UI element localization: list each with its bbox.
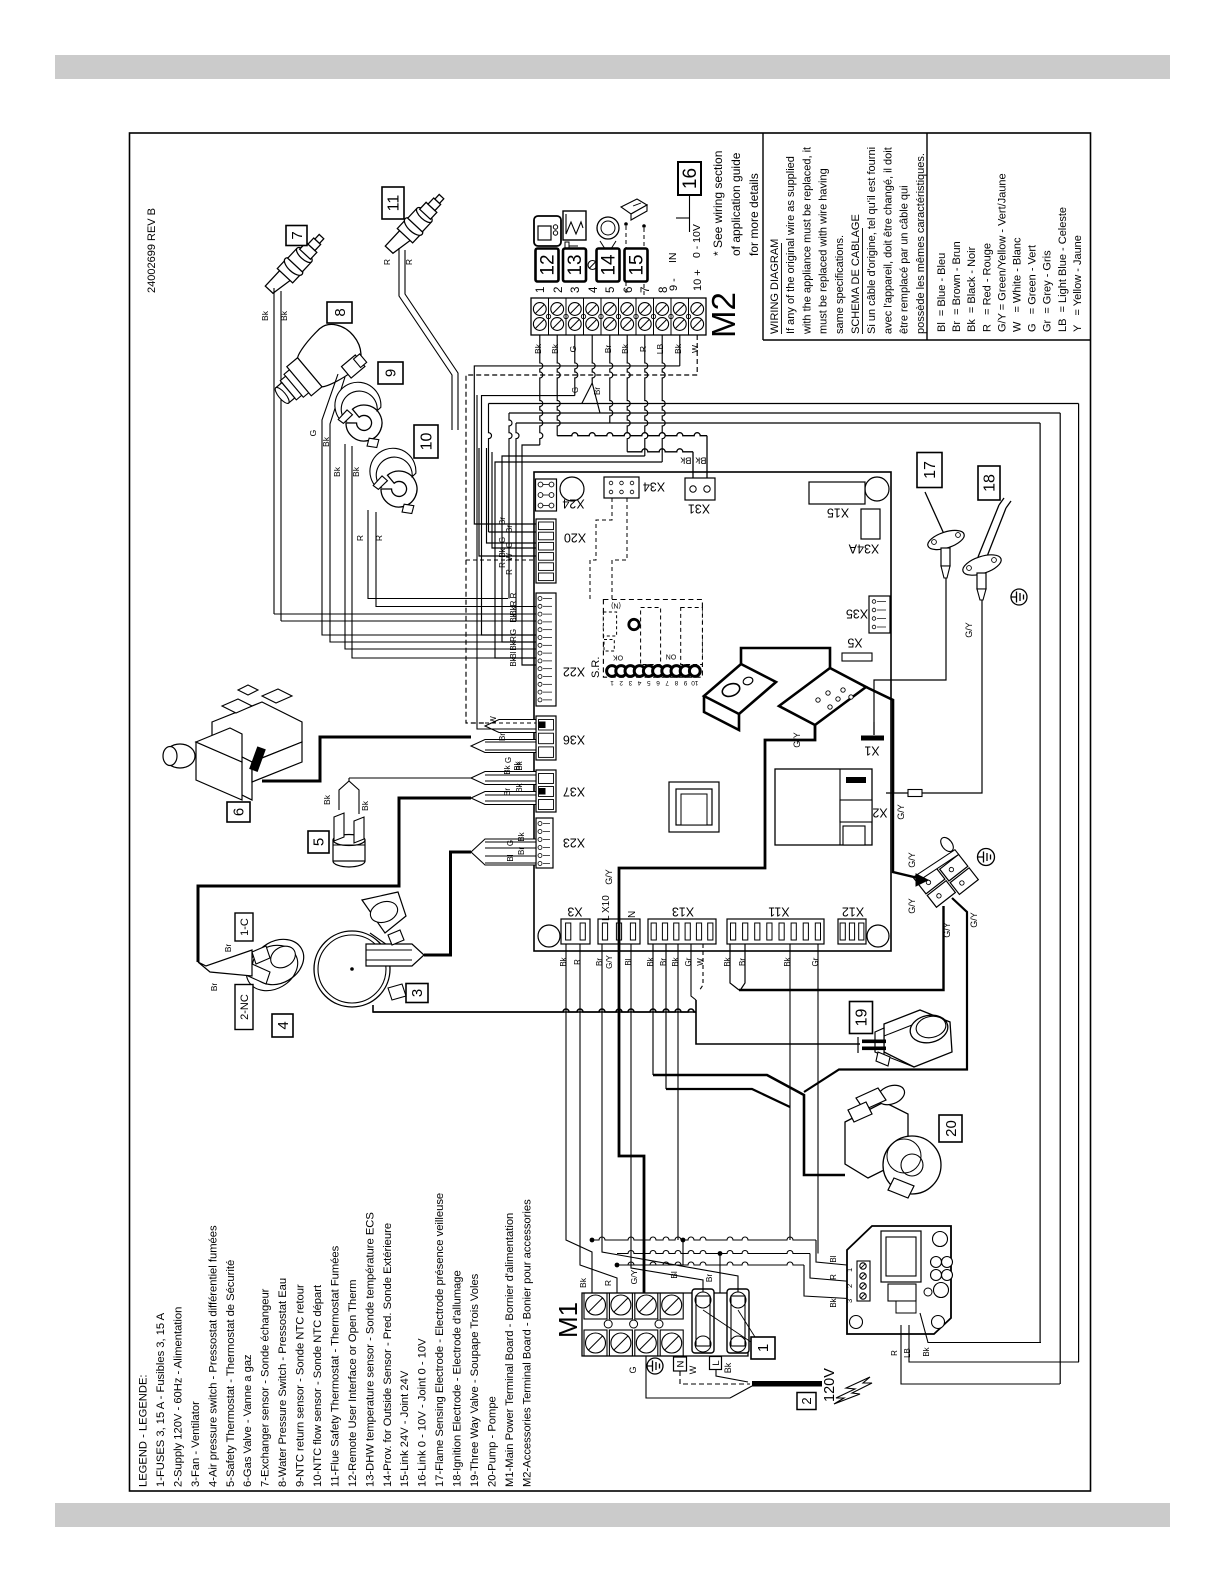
bottom gray footer bar: [55, 1503, 1170, 1527]
box 9: [378, 362, 403, 384]
svg-text:R: R: [355, 535, 365, 541]
svg-text:2-NC: 2-NC: [239, 994, 251, 1020]
svg-text:M2-Accessories Terminal Board: M2-Accessories Terminal Board - Bonier p…: [521, 1199, 533, 1487]
icon link switch (15): [621, 199, 647, 296]
svg-text:5: 5: [311, 838, 328, 846]
svg-text:G/Y: G/Y: [604, 869, 614, 885]
thick feed to three way valve 19: [696, 906, 944, 1044]
thick cable fan to X23: [424, 852, 471, 955]
svg-text:X11: X11: [768, 905, 789, 919]
svg-text:with the appliance must be rep: with the appliance must be replaced, it: [801, 147, 813, 335]
svg-text:Br: Br: [704, 1274, 714, 1283]
icon remote user interface (12): [534, 216, 561, 246]
label X34: [643, 480, 665, 494]
svg-text:WIRING DIAGRAM: WIRING DIAGRAM: [769, 239, 781, 334]
svg-text:11-Flue Safety Thermostat - Th: 11-Flue Safety Thermostat - Thermostat F…: [329, 1245, 341, 1487]
svg-text:10: 10: [691, 679, 699, 686]
svg-text:Bl: Bl: [506, 854, 515, 861]
G/Y earth path relay to X10 to M1: [604, 725, 815, 1293]
earth symbol at M1: [647, 1358, 663, 1374]
svg-text:1: 1: [845, 1268, 854, 1272]
svg-text:Bl = Blue - Bleu: Bl = Blue - Bleu: [936, 253, 948, 332]
leader fuse to box 1: [703, 1310, 755, 1342]
box 10: [414, 425, 438, 458]
label M2: [705, 292, 742, 338]
wire labels at interface board input: [829, 1255, 838, 1307]
wire M2-5 Br joins bundle: [610, 335, 613, 423]
svg-text:Bk: Bk: [260, 310, 270, 321]
svg-text:X12: X12: [842, 905, 864, 919]
svg-text:R: R: [374, 535, 384, 541]
svg-text:G: G: [568, 346, 578, 353]
svg-text:Br: Br: [738, 958, 747, 966]
interface board connector 1 2 3: [845, 1261, 870, 1303]
wire M2-3 G to X22: [575, 335, 578, 396]
sensor 8 water pressure switch: [262, 315, 373, 421]
wires into fuses: [602, 1240, 738, 1292]
box 16 link 0-10V: [678, 162, 701, 195]
svg-text:Br: Br: [595, 958, 604, 966]
svg-text:8: 8: [332, 308, 349, 316]
svg-text:16-Link 0 - 10V - Joint 0 - 10: 16-Link 0 - 10V - Joint 0 - 10V: [417, 1338, 429, 1487]
svg-text:1: 1: [535, 287, 547, 293]
box 19: [850, 1002, 873, 1034]
svg-text:Bk: Bk: [723, 956, 732, 966]
svg-text:X1: X1: [864, 744, 879, 758]
wire X11 Gr down right: [817, 944, 819, 1254]
wire X13 Bk to pump feed: [652, 944, 654, 1075]
svg-text:Br = Brown - Brun: Br = Brown - Brun: [951, 241, 963, 332]
ignition transformer block: [775, 769, 872, 845]
wires from sensor 9: [332, 444, 536, 658]
svg-text:of application guide: of application guide: [729, 152, 743, 256]
svg-text:R: R: [382, 259, 392, 265]
svg-text:12: 12: [538, 254, 559, 275]
connector X31: [685, 478, 715, 500]
PCB mounting hole top-right: [865, 477, 889, 501]
main control board PCB outline: [534, 472, 891, 951]
svg-text:X15: X15: [827, 506, 849, 520]
label X24: [562, 497, 584, 511]
box 12: [536, 249, 559, 282]
box 6: [227, 802, 250, 822]
sensor 11 flue safety thermostat: [382, 189, 450, 259]
box 13: [563, 249, 586, 282]
svg-text:Bk: Bk: [332, 466, 342, 477]
svg-text:M1: M1: [553, 1302, 583, 1338]
label X20: [564, 531, 586, 545]
svg-text:G: G: [628, 1366, 638, 1373]
wire X11 Bk to valve 19: [730, 944, 739, 990]
svg-text:R: R: [603, 1280, 613, 1286]
svg-text:120V: 120V: [822, 1368, 838, 1402]
svg-text:17: 17: [922, 461, 939, 479]
thick wire relay to earth cluster: [866, 687, 893, 793]
box 8: [327, 302, 352, 323]
svg-text:X31: X31: [688, 502, 710, 516]
M2 wire labels: [533, 343, 700, 354]
svg-text:9: 9: [683, 679, 687, 686]
svg-text:9-NTC return sensor - Sonde NT: 9-NTC return sensor - Sonde NTC retour: [295, 1284, 307, 1487]
wire M2-2 Bk to X31 pin 2: [557, 335, 560, 436]
svg-text:G = Green - Vert: G = Green - Vert: [1027, 245, 1039, 332]
svg-text:1: 1: [755, 1344, 772, 1352]
electrode 17 flame sensing: [925, 492, 967, 578]
label X35: [846, 607, 868, 621]
feeder to X20 Bk: [479, 448, 536, 556]
box L: [710, 1357, 722, 1370]
svg-text:If any of the original wire as: If any of the original wire as supplied: [785, 156, 797, 334]
svg-text:X20: X20: [564, 531, 586, 545]
PCB mounting hole bottom-left: [538, 925, 560, 947]
svg-text:Y = Yellow - Jaune: Y = Yellow - Jaune: [1072, 235, 1084, 332]
label X13: [672, 905, 694, 919]
component X15: [809, 482, 865, 504]
svg-text:13-DHW temperature sensor - So: 13-DHW temperature sensor - Sonde tempér…: [364, 1212, 376, 1487]
label S.R.: [590, 657, 602, 678]
svg-text:Bk: Bk: [783, 956, 792, 966]
svg-text:7: 7: [665, 679, 669, 686]
svg-text:G/Y: G/Y: [969, 912, 979, 928]
box 7: [286, 226, 307, 246]
box 17: [917, 453, 942, 488]
three way valve motor 19: [875, 1010, 952, 1067]
right side bundle verticals: [1040, 404, 1079, 1385]
fan bottom cable: [373, 1005, 696, 1012]
label X31: [688, 502, 710, 516]
connector X37: [536, 770, 556, 812]
svg-text:R: R: [573, 959, 582, 965]
label 120V: [822, 1368, 838, 1402]
svg-text:19-Three Way Valve - Soupape T: 19-Three Way Valve - Soupape Trois Voles: [469, 1273, 481, 1487]
svg-text:5: 5: [605, 287, 617, 293]
label X12: [842, 905, 864, 919]
wires from sensor 7: [260, 288, 536, 621]
feeder to X20 pin G2: [492, 452, 536, 548]
wires from sensor 11: [382, 248, 458, 430]
wires earth cluster to pump cable: [804, 898, 967, 1092]
svg-text:(N): (N): [611, 602, 621, 609]
earth symbol at cluster: [978, 849, 995, 866]
svg-text:10 +: 10 +: [692, 269, 704, 291]
svg-text:LB: LB: [655, 343, 665, 354]
box N: [674, 1357, 687, 1371]
wire X13 Gr down to valve feed: [691, 944, 696, 1000]
connector X24: [536, 479, 557, 511]
svg-text:X3: X3: [567, 905, 582, 919]
svg-text:G/Y: G/Y: [907, 852, 917, 868]
svg-text:6: 6: [231, 808, 248, 816]
svg-text:2: 2: [845, 1284, 854, 1288]
svg-text:4: 4: [588, 286, 600, 293]
svg-text:Bl: Bl: [829, 1255, 838, 1262]
svg-text:Bk: Bk: [620, 343, 630, 354]
X36 cable lugs: [471, 716, 536, 771]
svg-text:OK: OK: [613, 654, 623, 661]
svg-text:R: R: [404, 259, 414, 265]
svg-text:G/Y = Green/Yellow - Vert/Jaun: G/Y = Green/Yellow - Vert/Jaune: [996, 173, 1008, 332]
svg-text:3: 3: [628, 679, 632, 686]
label G/Y at X2: [896, 804, 906, 820]
wire X10-N Bl down: [630, 944, 632, 1254]
svg-text:Bk: Bk: [646, 956, 655, 966]
box 4: [272, 1014, 293, 1037]
svg-text:Bl: Bl: [624, 958, 633, 965]
svg-text:13: 13: [565, 254, 586, 275]
svg-text:Bk: Bk: [695, 455, 706, 466]
wires from sensor 8: [308, 374, 536, 642]
long horizontal wire at mid bottom: [373, 1009, 696, 1012]
wire M2-9 Bk collector to X20: [679, 335, 681, 366]
svg-text:8: 8: [674, 679, 678, 686]
svg-text:W: W: [696, 958, 705, 966]
svg-text:Bk: Bk: [360, 800, 370, 811]
svg-text:X37: X37: [563, 785, 585, 799]
component X34A: [861, 509, 880, 539]
svg-text:W: W: [690, 345, 700, 353]
wire colour legend: [936, 173, 1084, 332]
svg-text:R: R: [498, 562, 507, 568]
svg-text:X23: X23: [563, 836, 585, 850]
svg-text:R = Red - Rouge: R = Red - Rouge: [981, 243, 993, 332]
svg-text:9 -: 9 -: [668, 278, 680, 291]
svg-text:Bk: Bk: [279, 310, 289, 321]
connector X3: [561, 919, 590, 944]
wire X3-1 Bk down to M1: [566, 944, 592, 1293]
svg-text:6-Gas Valve - Vanne a gaz: 6-Gas Valve - Vanne a gaz: [242, 1354, 254, 1487]
svg-text:X36: X36: [563, 733, 585, 747]
wire X13 W dashed to valve feed: [699, 944, 703, 991]
svg-text:20-Pump - Pompe: 20-Pump - Pompe: [487, 1396, 499, 1487]
electrode 18 ignition: [960, 498, 1011, 600]
svg-text:19: 19: [854, 1009, 871, 1027]
svg-text:15-Link 24V - Joint 24V: 15-Link 24V - Joint 24V: [399, 1370, 411, 1487]
svg-text:Bk: Bk: [723, 1362, 733, 1373]
wire M2-8 LB to X22: [662, 335, 665, 462]
icon DHW sensor (13): [563, 211, 586, 251]
svg-text:Gr: Gr: [811, 957, 820, 966]
labels 10+ 9- IN 0-10V: [667, 224, 704, 291]
svg-text:X24: X24: [562, 497, 584, 511]
svg-text:1-C: 1-C: [239, 918, 251, 936]
svg-text:2: 2: [553, 287, 565, 293]
svg-text:Br: Br: [517, 847, 526, 855]
PCB bottom wire labels: [559, 954, 820, 968]
air pressure switch 4: [238, 930, 312, 999]
PCB mounting hole bottom-right: [867, 925, 889, 947]
S.R. tiny labels: [610, 602, 699, 687]
svg-text:6: 6: [656, 679, 660, 686]
wire Br to X36 from channel: [477, 395, 487, 729]
dashed branch to X20: [466, 559, 536, 561]
svg-text:G: G: [308, 430, 318, 437]
connector X11: [727, 919, 824, 944]
svg-text:Bk: Bk: [509, 612, 518, 622]
sensor 9 NTC return: [330, 377, 392, 455]
wire M2-1 Bk to X22: [540, 335, 543, 445]
thick cable X37 to air pressure switch 4: [198, 798, 471, 962]
svg-text:Bk: Bk: [321, 436, 331, 447]
svg-text:R: R: [509, 600, 518, 606]
wire X3-2 R down to M1: [580, 944, 617, 1293]
horizontal bundle wires to right border: [489, 404, 1079, 424]
svg-text:Br: Br: [223, 944, 233, 953]
svg-text:Bk: Bk: [671, 956, 680, 966]
component X5 pad: [842, 653, 872, 661]
terminal X1 flame sense: [861, 722, 884, 741]
svg-text:R: R: [890, 1350, 899, 1356]
svg-text:* See wiring section: * See wiring section: [711, 151, 725, 256]
link symbol under 16: [676, 195, 690, 232]
terminal board M1: [582, 1293, 748, 1356]
legend text block: [138, 1193, 534, 1487]
svg-text:7-Exchanger sensor - Sonde éch: 7-Exchanger sensor - Sonde échangeur: [260, 1288, 272, 1487]
M1 wire labels: [578, 1269, 714, 1288]
svg-text:17-Flame Sensing Electrode - E: 17-Flame Sensing Electrode - Electrode p…: [434, 1193, 446, 1487]
svg-text:Si un câble d'origine, tel qu: Si un câble d'origine, tel qu'il est fo…: [866, 147, 878, 334]
box 18: [978, 466, 1000, 500]
accessories interface board: [847, 1226, 953, 1334]
processor square: [669, 782, 719, 832]
svg-text:Br: Br: [503, 788, 512, 796]
svg-text:N: N: [675, 1360, 686, 1367]
svg-text:Br: Br: [659, 958, 668, 966]
svg-text:Br: Br: [209, 983, 219, 992]
wire M2-10 W dashed to X36: [696, 335, 698, 375]
drawing border frame: [130, 133, 1091, 1491]
svg-text:Bk: Bk: [829, 1297, 838, 1307]
svg-text:10-NTC flow sensor - Sonde NTC: 10-NTC flow sensor - Sonde NTC départ: [312, 1284, 324, 1487]
svg-text:LEGEND - LEGENDE:: LEGEND - LEGENDE:: [138, 1374, 150, 1487]
junction dots at M1 bundle: [590, 1238, 723, 1268]
svg-text:Bk: Bk: [533, 343, 543, 354]
relay block on PCB: [704, 648, 866, 730]
labels Bk Bk at X31: [680, 455, 706, 466]
svg-text:9: 9: [383, 369, 400, 377]
terminal strip M2: [531, 298, 706, 335]
box 15: [625, 249, 648, 282]
svg-text:Bk: Bk: [550, 343, 560, 354]
connector X13: [648, 919, 716, 944]
label X1: [864, 744, 879, 758]
svg-text:4-Air pressure switch - Presso: 4-Air pressure switch - Pressostat diffé…: [207, 1225, 219, 1487]
svg-text:Bk: Bk: [515, 782, 524, 792]
svg-text:IN: IN: [667, 253, 679, 264]
wires thermostat 5 to X37: [322, 778, 471, 814]
svg-text:5-Safety Thermostat - Thermost: 5-Safety Thermostat - Thermostat de Sécu…: [225, 1260, 237, 1487]
label X36: [563, 733, 585, 747]
supply cable 120V thick bar: [752, 1381, 822, 1387]
connector X35: [869, 596, 890, 633]
wire X10-L Br down: [601, 944, 603, 1240]
X23 cable lug: [471, 831, 536, 865]
svg-text:Br: Br: [593, 387, 602, 395]
spade terminal at X2: [886, 790, 922, 797]
svg-text:12-Remote User Interface or Op: 12-Remote User Interface or Open Therm: [347, 1280, 359, 1487]
svg-text:ON: ON: [666, 653, 677, 660]
svg-text:X13: X13: [672, 905, 694, 919]
svg-text:LB = Light Blue - Celeste: LB = Light Blue - Celeste: [1057, 207, 1069, 332]
svg-text:Br: Br: [603, 345, 613, 354]
svg-text:M2: M2: [705, 292, 742, 338]
label N: [627, 911, 638, 918]
svg-text:S.R.: S.R.: [590, 657, 602, 678]
svg-text:G: G: [571, 387, 580, 393]
svg-text:1-FUSES 3, 15 A - Fusibles 3,: 1-FUSES 3, 15 A - Fusibles 3, 15 A: [155, 1312, 167, 1487]
gas valve 6: [163, 685, 302, 800]
box 11: [382, 187, 404, 219]
svg-text:R: R: [509, 592, 518, 598]
label L X10: [601, 895, 612, 921]
box 1 fuse label: [751, 1337, 775, 1359]
wire X13 Br to pump feed 2: [665, 944, 667, 1089]
svg-text:2: 2: [799, 1397, 814, 1404]
connector X20: [536, 519, 556, 583]
svg-text:10: 10: [419, 433, 436, 451]
svg-text:6: 6: [623, 287, 635, 293]
note see wiring section: [711, 151, 761, 256]
wire X11 Br to valve 19: [741, 944, 745, 989]
box 2-NC: [235, 985, 253, 1030]
svg-text:X2: X2: [872, 806, 887, 820]
earth near electrode 18: [1011, 589, 1027, 605]
svg-text:11: 11: [386, 195, 403, 212]
svg-text:8-Water Pressure Switch - Pres: 8-Water Pressure Switch - Pressostat Eau: [277, 1278, 289, 1487]
svg-text:0 - 10V: 0 - 10V: [691, 224, 703, 258]
svg-text:3: 3: [570, 287, 582, 293]
svg-text:for more details: for more details: [747, 173, 761, 256]
svg-text:L: L: [711, 1360, 722, 1365]
svg-text:X34: X34: [643, 480, 665, 494]
label X3: [567, 905, 582, 919]
svg-text:Bk: Bk: [351, 466, 361, 477]
wiring diagram info box: [763, 133, 1090, 340]
svg-text:Gr = Grey - Gris: Gr = Grey - Gris: [1042, 250, 1054, 332]
svg-text:5: 5: [647, 679, 651, 686]
svg-text:être remplacé par un câble: être remplacé par un câble qui: [899, 185, 911, 334]
svg-text:Br: Br: [498, 517, 507, 525]
bundle wires above M1 to interface board: [592, 1237, 857, 1299]
X37 cable lugs: [471, 760, 536, 804]
svg-text:R: R: [509, 636, 518, 642]
svg-text:4: 4: [637, 679, 641, 686]
svg-text:18: 18: [982, 474, 999, 492]
svg-text:7: 7: [640, 287, 652, 293]
wire electrode 17 to X1: [874, 578, 946, 722]
PCB mounting hole top-left: [560, 477, 584, 501]
wire M2-7 R to X22: [645, 335, 648, 456]
X22 entry labels: [509, 592, 518, 666]
svg-text:1: 1: [610, 679, 614, 686]
svg-text:7: 7: [289, 231, 306, 239]
svg-text:G/Y: G/Y: [605, 954, 614, 968]
S.R. jumper block: [603, 600, 702, 678]
box 20: [939, 1115, 962, 1142]
supply cone 120V: [646, 1356, 752, 1398]
svg-text:Bk: Bk: [517, 831, 526, 841]
label X11: [768, 905, 789, 919]
wire M2-4 split G Br: [592, 335, 595, 383]
label G/Y electrode 18 wire: [964, 622, 974, 638]
label W at M1: [688, 1365, 698, 1374]
svg-text:Bk: Bk: [673, 343, 683, 354]
cone to contacts of switch 4: [198, 944, 252, 992]
svg-text:2: 2: [619, 679, 623, 686]
svg-text:Bk: Bk: [322, 794, 332, 805]
svg-text:G: G: [506, 840, 515, 846]
box 5: [308, 831, 329, 853]
svg-text:must be replaced with wire hav: must be replaced with wire having: [818, 168, 830, 334]
